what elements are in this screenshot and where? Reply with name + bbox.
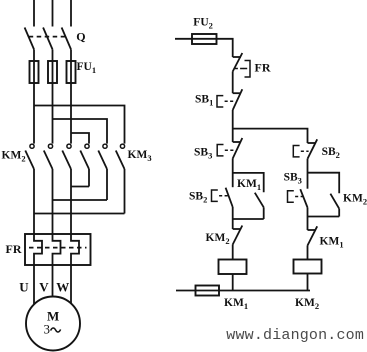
- wire L3 FU1 to KM2 contact: [70, 83, 72, 144]
- pushbutton SB3 NC (rung A) blade: [233, 138, 243, 159]
- SB3 (rung A) dash link: [225, 149, 234, 151]
- wire KM2 aux to rejoin: [338, 209, 340, 217]
- wire split to KM1 aux branch: [233, 173, 264, 192]
- wire SB1 down through branch: [232, 110, 234, 142]
- svg-text:FU1: FU1: [77, 61, 97, 75]
- fuse FU1 pole 1: [30, 61, 39, 83]
- pushbutton SB3 NO blade (rung B): [300, 189, 307, 207]
- wire branch L2 to KM3 pole 5: [53, 119, 108, 144]
- svg-text:SB1: SB1: [195, 94, 213, 108]
- wire FR to SB1: [232, 72, 234, 94]
- SB3 (rung B) bracket: [288, 191, 294, 202]
- svg-text:KM2: KM2: [206, 232, 230, 246]
- wire W to motor: [70, 265, 72, 304]
- svg-text:www.diangon.com: www.diangon.com: [226, 327, 364, 344]
- svg-text:KM1: KM1: [237, 178, 261, 192]
- wire branch L3 to KM3 pole 4: [71, 133, 89, 144]
- SB3 (rung B) dash link: [295, 196, 303, 198]
- wire SB3 down through rejoin: [307, 208, 309, 231]
- SB1 dash link: [225, 100, 234, 102]
- contactor KM3 main contact pole 5: [98, 144, 107, 169]
- contact KM2 NC interlock blade: [233, 226, 243, 245]
- wire rejoin rung A: [233, 218, 264, 220]
- thermal relay FR box: [25, 234, 91, 265]
- wire pole6 down: [124, 169, 126, 214]
- svg-text:SB3: SB3: [194, 146, 212, 160]
- bottom control bus: [176, 290, 310, 292]
- pushbutton SB2 NC (rung B) tick: [308, 142, 317, 144]
- pushbutton SB2 NO blade: [226, 188, 233, 207]
- wire L2 Q to FU1: [52, 49, 54, 83]
- wire L2 FU1 to KM2 contact: [52, 83, 54, 144]
- contact KM2 NC interlock tick: [233, 228, 241, 230]
- svg-text:KM2: KM2: [295, 297, 319, 311]
- Q gang dashed link: [29, 36, 65, 38]
- wire crossover pole6 to U: [34, 213, 125, 215]
- wire phase L1 top: [33, 0, 35, 27]
- wire control supply top: [175, 39, 233, 57]
- pushbutton SB1 NC blade: [233, 89, 243, 110]
- svg-text:KM3: KM3: [128, 149, 152, 163]
- pushbutton SB1 NC tick: [233, 92, 241, 94]
- contactor KM3 main contact pole 4: [80, 144, 89, 169]
- contactor KM3 main contact pole 6: [116, 144, 125, 169]
- FR dash-dot link: [235, 68, 243, 70]
- svg-text:SB2: SB2: [322, 146, 340, 160]
- fuse FU2: [192, 34, 217, 44]
- wire pole5 down: [106, 169, 108, 200]
- FR heater dashed link: [29, 247, 87, 249]
- SB2 dash link: [219, 195, 228, 197]
- wire coil KM2 to bus: [307, 274, 309, 291]
- SB2 bracket: [212, 190, 218, 201]
- svg-text:FU2: FU2: [193, 17, 213, 31]
- FR heater element phase 3: [71, 234, 79, 265]
- svg-text:KM1: KM1: [224, 297, 248, 311]
- contact KM2 aux NO blade: [330, 194, 339, 209]
- svg-text:FR: FR: [6, 242, 22, 256]
- FR NC contact blade: [233, 53, 243, 72]
- coil KM1: [219, 260, 247, 275]
- wire KM1 aux to rejoin: [263, 207, 265, 219]
- svg-text:Q: Q: [76, 30, 85, 44]
- wire SB2 rung B down: [307, 159, 309, 189]
- wire L1 FU1 to KM2 contact: [33, 83, 35, 144]
- wire branch to rung B: [233, 129, 308, 143]
- wire SB2 down through rejoin: [232, 207, 234, 229]
- contactor KM2 main contact pole 3: [62, 144, 71, 169]
- disconnect switch Q pole 3 blade: [62, 28, 71, 50]
- contact KM1 NC interlock tick: [308, 229, 317, 231]
- wire phase L2 top: [52, 0, 54, 27]
- wire split to KM2 aux branch: [308, 173, 340, 194]
- fuse FU1 pole 3: [67, 61, 76, 83]
- FR NC contact tick: [233, 56, 241, 58]
- wire branch L1 to KM3 pole 6: [34, 106, 125, 144]
- contact KM1 NC interlock blade: [308, 226, 318, 245]
- contactor KM2 main contact pole 2: [44, 144, 53, 169]
- fuse FU1 pole 2: [48, 61, 57, 83]
- svg-text:SB3: SB3: [284, 172, 302, 186]
- pushbutton SB1 bracket: [217, 96, 223, 107]
- svg-text:KM2: KM2: [343, 193, 367, 207]
- wire V to motor: [52, 265, 54, 297]
- wire U to motor: [33, 265, 35, 305]
- FR heater element phase 1: [34, 234, 42, 265]
- wire phase L3 top: [70, 0, 72, 27]
- svg-text:SB2: SB2: [189, 191, 207, 205]
- wire to coil KM2: [307, 246, 309, 260]
- disconnect switch Q pole 1 blade: [25, 28, 34, 50]
- wire L1 Q to FU1: [33, 49, 35, 83]
- pushbutton SB2 NC (rung B) blade: [308, 139, 318, 159]
- svg-text:W: W: [56, 280, 69, 295]
- wire rejoin rung B: [308, 216, 340, 218]
- wire pole1 down to FR: [33, 169, 35, 234]
- wire L3 Q to FU1: [70, 49, 72, 83]
- FR trip actuator: [243, 61, 250, 78]
- contact KM1 aux NO blade: [255, 193, 264, 208]
- svg-text:KM1: KM1: [320, 236, 344, 250]
- wire crossover pole4 to W: [71, 186, 89, 188]
- fuse on bottom bus: [196, 286, 220, 296]
- wire coil KM1 to bus: [232, 274, 234, 291]
- svg-text:U: U: [19, 280, 29, 295]
- svg-text:3: 3: [44, 322, 51, 337]
- FR heater element phase 2: [53, 234, 61, 265]
- pushbutton SB3 NC (rung A) tick: [233, 141, 241, 143]
- motor M circle: [26, 297, 80, 351]
- svg-text:V: V: [39, 280, 49, 295]
- svg-text:FR: FR: [255, 61, 271, 75]
- coil KM2: [294, 260, 322, 274]
- tilde of 3~: [51, 328, 61, 332]
- svg-text:KM2: KM2: [2, 149, 26, 163]
- SB2 (rung B) bracket: [293, 146, 299, 157]
- wire pole4 down: [88, 169, 90, 187]
- SB2 (rung B) dash link: [301, 150, 309, 152]
- wire pole3 down to FR: [70, 169, 72, 234]
- contactor KM2 main contact pole 1: [25, 144, 34, 169]
- wire SB3 to parallel split: [232, 159, 234, 188]
- wire to coil KM1: [232, 245, 234, 260]
- disconnect switch Q pole 2 blade: [43, 28, 52, 50]
- wire pole2 down to FR: [52, 169, 54, 234]
- SB3 (rung A) bracket: [217, 145, 223, 156]
- wire crossover pole5 to V: [53, 199, 108, 201]
